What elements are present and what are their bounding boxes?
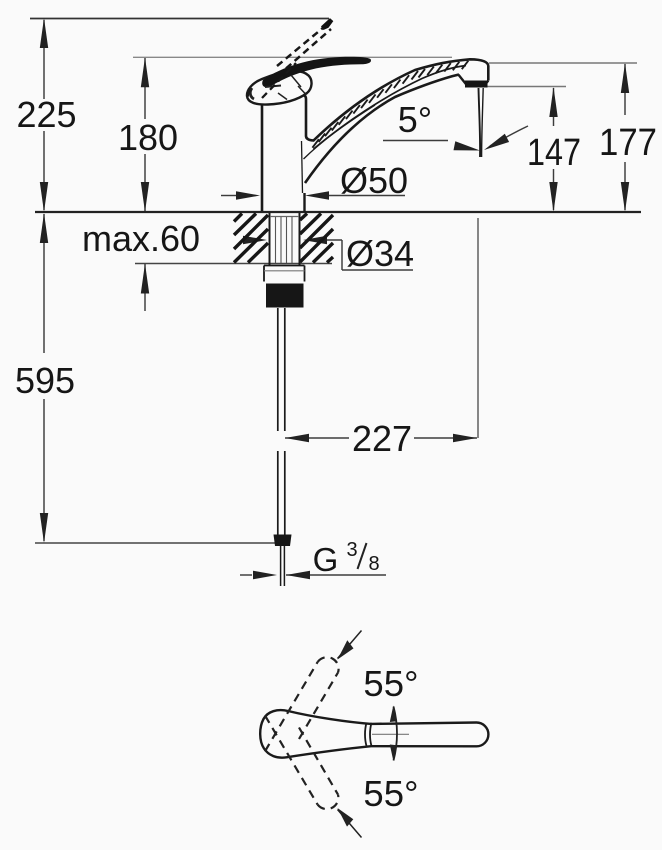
svg-text:5°: 5° <box>398 99 432 140</box>
svg-text:8: 8 <box>368 553 379 575</box>
svg-text:147: 147 <box>527 132 581 174</box>
svg-text:55°: 55° <box>363 663 418 704</box>
svg-text:177: 177 <box>599 122 657 164</box>
svg-text:G: G <box>313 541 339 578</box>
svg-text:Ø34: Ø34 <box>346 233 414 274</box>
svg-text:180: 180 <box>118 117 178 158</box>
svg-text:595: 595 <box>15 360 75 401</box>
svg-text:227: 227 <box>352 418 412 459</box>
svg-text:3: 3 <box>346 539 357 561</box>
svg-text:max.60: max.60 <box>82 218 200 259</box>
svg-text:225: 225 <box>16 94 76 135</box>
svg-text:Ø50: Ø50 <box>340 160 408 201</box>
svg-text:55°: 55° <box>363 773 418 814</box>
